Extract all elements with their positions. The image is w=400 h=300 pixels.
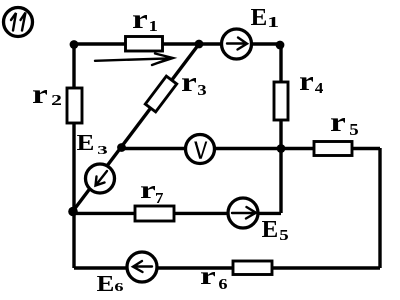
current direction arrow under R1 (95, 54, 173, 66)
junction node top-left (70, 40, 79, 49)
resistor R6 (233, 261, 272, 275)
source E1 (222, 29, 252, 59)
source E3 (86, 164, 115, 193)
label r4 glyph 4 (315, 83, 323, 93)
label r5 glyph 5 (350, 124, 358, 135)
label E5 glyph 5 (280, 230, 288, 240)
resistor R7 (135, 206, 174, 221)
label E6 glyph E (97, 276, 113, 291)
arrow inside E1 (227, 38, 247, 50)
label r7 glyph 7 (156, 193, 163, 203)
junction node top-right (276, 41, 285, 50)
label E6 glyph 6 (115, 283, 123, 291)
label E1 glyph 1 (269, 17, 278, 27)
badge circle 11 (4, 8, 33, 37)
resistor R4 (274, 82, 288, 120)
wire middle voltmeter branch (120, 147, 281, 150)
wire left side (72, 44, 75, 268)
resistor R1 (126, 37, 163, 52)
label E3 glyph E (77, 135, 93, 150)
voltmeter V (186, 135, 215, 164)
label r1 glyph r (133, 15, 147, 28)
handwritten digit 1 (second) in badge (21, 13, 26, 31)
wire bottom (74, 266, 380, 269)
source E5 (228, 198, 258, 228)
junction node middle-left (117, 143, 126, 152)
wire top from node A to top-right corner (74, 42, 281, 45)
junction node top diagonal (195, 40, 204, 49)
resistor R5 (314, 142, 352, 156)
label r2 glyph r (33, 90, 47, 103)
wire diagonal branch (73, 44, 199, 211)
label V of voltmeter (194, 142, 199, 158)
label r4 glyph r (300, 77, 313, 90)
wire E5 vertical segment (279, 148, 282, 213)
label r5 glyph r (331, 118, 345, 131)
label r1 glyph 1 (150, 21, 157, 31)
wire right side (378, 148, 381, 268)
label r6 glyph 6 (219, 279, 227, 289)
resistor R2 (67, 88, 82, 123)
label E1 glyph E (251, 9, 266, 25)
label E5 glyph E (262, 221, 277, 237)
handwritten digit 1 (first) in badge (11, 13, 16, 31)
arrow inside E6 (133, 261, 152, 272)
label r6 glyph r (201, 272, 215, 284)
source E6 (127, 252, 157, 282)
label r7 glyph r (141, 186, 155, 198)
label r3 glyph 3 (198, 85, 206, 95)
arrow inside E5 (232, 207, 256, 219)
wire r7 E5 branch (73, 212, 281, 215)
wire r4 branch (279, 44, 282, 148)
junction node r4 bottom (277, 144, 286, 153)
label r2 glyph 2 (52, 95, 61, 105)
arrow inside E3 (96, 171, 108, 186)
label r3 glyph r (182, 78, 196, 91)
wire r5 branch (281, 147, 380, 150)
junction node lower-left (68, 207, 78, 217)
label E3 glyph 3 (98, 146, 107, 154)
resistor R3 (145, 76, 176, 112)
